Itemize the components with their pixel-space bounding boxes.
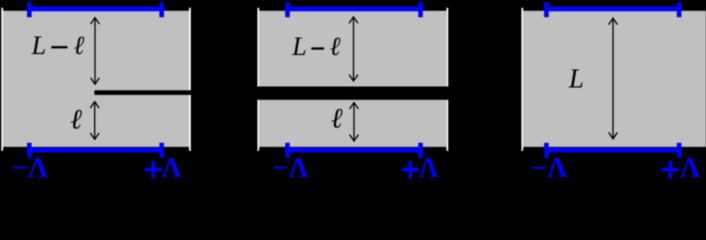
svg-text:Λ: Λ — [161, 153, 181, 180]
svg-text:ℓ: ℓ — [73, 31, 84, 60]
panel 1 bottom plate bar (blue) — [27, 148, 164, 153]
panel 2 left white edge line — [257, 8, 259, 151]
panel 2 bottom plate right tick — [418, 143, 423, 158]
panel 2 label L minus l — [291, 32, 340, 61]
panel 1 right white edge line — [189, 8, 191, 151]
panel 1 label L minus l — [31, 31, 85, 60]
panel 3 bottom plate right tick — [677, 143, 682, 158]
svg-text:Λ: Λ — [680, 153, 700, 180]
panel 2 charge label +Lambda — [401, 153, 438, 184]
panel 2 lower dimension arrow (l) — [350, 103, 359, 141]
panel 1 bottom plate left tick — [27, 143, 32, 158]
svg-text:L: L — [31, 31, 46, 60]
svg-text:ℓ: ℓ — [330, 32, 341, 61]
panel 3 top plate right tick — [677, 2, 682, 17]
panel 3 bottom plate bar (blue) — [544, 148, 681, 153]
svg-text:−Λ: −Λ — [272, 153, 308, 180]
svg-text:−Λ: −Λ — [531, 153, 567, 180]
panel 2 top plate left tick — [285, 2, 290, 17]
panel 3 gray dielectric region — [523, 11, 706, 147]
panel 3 full-gap dimension arrow (L) — [609, 18, 618, 139]
panel 1 bottom plate right tick — [159, 143, 164, 158]
panel 1 top plate right tick — [159, 2, 164, 17]
panel 1 charge label +Lambda — [144, 153, 181, 184]
panel 3 left white edge line — [521, 8, 523, 151]
svg-text:ℓ: ℓ — [70, 104, 82, 135]
panel 3 top plate bar (blue) — [544, 7, 681, 12]
panel 3 bottom plate left tick — [544, 143, 549, 158]
panel 1 top plate left tick — [27, 2, 32, 17]
panel 3 charge label +Lambda — [661, 153, 700, 184]
svg-text:L: L — [291, 32, 306, 61]
panel 1 lower dimension arrow (l) — [90, 102, 99, 140]
panel 1 top plate bar (blue) — [27, 7, 164, 12]
svg-text:Λ: Λ — [418, 153, 438, 180]
svg-text:ℓ: ℓ — [331, 103, 343, 134]
panel 1 left white edge line — [1, 8, 3, 151]
panel 1 upper dimension arrow (L - l) — [91, 18, 100, 85]
panel 2 thick black slab — [254, 87, 452, 100]
panel 3 top plate left tick — [544, 2, 549, 17]
panel 2 upper dimension arrow (L - l) — [349, 17, 358, 81]
panel 2 top plate bar (blue) — [285, 7, 423, 12]
panel 2 top plate right tick — [418, 2, 423, 17]
panel 2 bottom plate bar (blue) — [285, 148, 423, 153]
panel 2 bottom plate left tick — [285, 143, 290, 158]
panel 1 inserted black plate — [94, 90, 191, 95]
panel 2 right white edge line — [446, 8, 448, 151]
panel 2 gray dielectric region — [259, 11, 446, 147]
svg-text:L: L — [568, 63, 584, 93]
svg-text:−Λ: −Λ — [12, 153, 48, 180]
panel 1 gray dielectric region — [3, 11, 189, 147]
